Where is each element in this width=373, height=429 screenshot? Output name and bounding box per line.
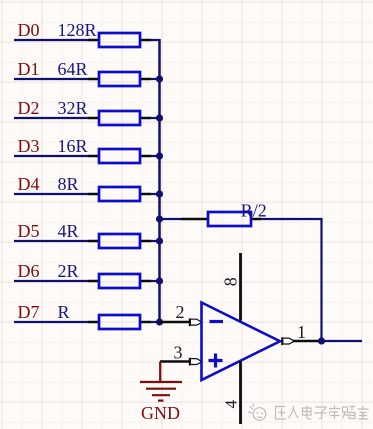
resistor R2 64R [88, 72, 151, 86]
resistor R6 4R [88, 234, 151, 248]
svg-text:D6: D6 [18, 261, 40, 281]
op-amp U1 [202, 303, 281, 381]
svg-text:8: 8 [220, 277, 240, 286]
svg-text:3: 3 [174, 343, 183, 363]
power pin 8 line [239, 253, 242, 321]
wire R4 to bus [151, 155, 160, 157]
resistor R9 R/2 feedback [181, 212, 261, 226]
junction D6 [156, 277, 163, 284]
junction R/2 tap [156, 215, 163, 222]
wire ground to pin 3 [160, 360, 190, 362]
junction D7 summing node [156, 318, 163, 325]
wire D7 to resistor [14, 321, 88, 323]
svg-text:2R: 2R [58, 261, 79, 281]
wire summing node to pin 2 [160, 321, 190, 323]
pin 2 clip [190, 318, 201, 326]
svg-text:1: 1 [297, 322, 306, 342]
junction output node [318, 337, 325, 344]
pin 3 clip [190, 358, 201, 366]
svg-text:D7: D7 [18, 302, 40, 322]
wire D3 to resistor [14, 155, 88, 157]
watermark text 匠人电子实验室 approximation [276, 406, 369, 420]
wire D6 to resistor [14, 280, 88, 282]
junction D1 [156, 75, 163, 82]
svg-text:D3: D3 [18, 136, 40, 156]
junction D4 [156, 190, 163, 197]
wire output pin [293, 340, 322, 342]
svg-text:128R: 128R [58, 20, 97, 40]
ground symbol [140, 362, 182, 401]
watermark logo [248, 404, 266, 421]
svg-text:4: 4 [222, 400, 241, 409]
junction D5 [156, 237, 163, 244]
resistor R8 R [88, 315, 151, 329]
resistor R4 16R [88, 149, 151, 163]
resistor R3 32R [88, 111, 151, 125]
resistor R1 128R [88, 33, 151, 47]
svg-text:64R: 64R [58, 59, 88, 79]
svg-text:8R: 8R [58, 174, 79, 194]
wire R3 to bus [151, 117, 160, 119]
wire R7 to bus [151, 280, 160, 282]
wire output to right [322, 340, 363, 342]
wire R5 to bus [151, 193, 160, 195]
svg-text:4R: 4R [58, 221, 79, 241]
output pin 1 clip [282, 337, 293, 345]
power pin 4 line [239, 361, 242, 424]
wire R/2 to output node [261, 219, 322, 341]
svg-text:GND: GND [141, 403, 180, 423]
svg-text:D5: D5 [18, 221, 40, 241]
svg-text:16R: 16R [58, 136, 88, 156]
wire D2 to resistor [14, 117, 88, 119]
resistor R7 2R [88, 274, 151, 288]
wire D1 to resistor [14, 78, 88, 80]
resistor R5 8R [88, 187, 151, 201]
junction D2 [156, 114, 163, 121]
wire D5 to resistor [14, 240, 88, 242]
wire R2 to bus [151, 78, 160, 80]
svg-text:R/2: R/2 [241, 200, 267, 220]
wire R6 to bus [151, 240, 160, 242]
wire bus to R/2 [160, 218, 182, 220]
svg-text:D4: D4 [18, 174, 40, 194]
junction D3 [156, 152, 163, 159]
svg-text:32R: 32R [58, 98, 88, 118]
svg-text:D2: D2 [18, 98, 40, 118]
wire D0 to resistor [14, 39, 88, 41]
svg-text:D1: D1 [18, 59, 40, 79]
wire D4 to resistor [14, 193, 88, 195]
wire R8 to bus [151, 321, 160, 323]
bus wire summing node vertical [158, 39, 161, 323]
svg-text:2: 2 [176, 302, 185, 322]
svg-text:D0: D0 [18, 20, 40, 40]
wire R1 to bus [151, 39, 160, 41]
svg-text:R: R [58, 302, 70, 322]
